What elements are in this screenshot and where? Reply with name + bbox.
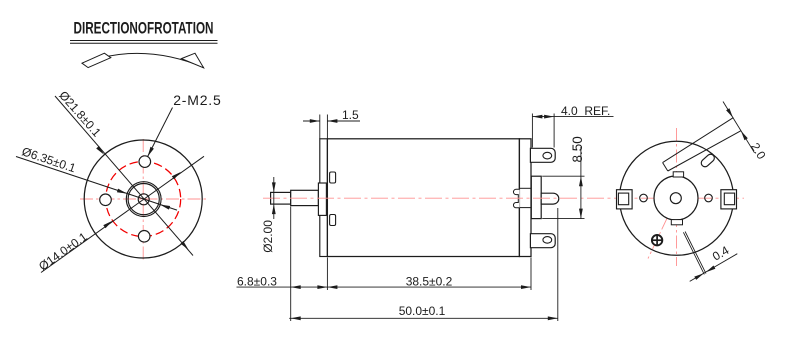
dim 1.5 extension lines <box>320 115 328 139</box>
boss outer circle <box>126 182 161 217</box>
bearing bottom tab <box>671 220 682 225</box>
svg-text:1.5: 1.5 <box>342 108 359 122</box>
brush hole left <box>640 194 648 202</box>
svg-text:50.0±0.1: 50.0±0.1 <box>399 304 446 318</box>
mounting hole top M2.5 <box>139 156 151 168</box>
title double underline <box>70 41 218 44</box>
vent hole <box>652 235 662 245</box>
rotation arrow arc <box>82 53 204 67</box>
arrow D21.8 lower <box>181 241 189 250</box>
brush hole right <box>705 194 713 202</box>
terminal clip right outer <box>721 190 737 209</box>
main centerline (red) <box>263 197 744 199</box>
svg-text:DIRECTIONOFROTATION: DIRECTIONOFROTATION <box>74 20 214 38</box>
centerline vertical (red) <box>142 139 144 261</box>
arrow D6.35 right <box>160 205 170 210</box>
front end plate <box>320 139 328 257</box>
terminal bar (2.0 wide) <box>663 118 741 171</box>
motor body outer circle D21.8 <box>84 140 202 258</box>
motor body can <box>327 139 519 257</box>
dim 38.5 arrows <box>327 285 531 289</box>
arrow D21.8 upper <box>96 146 104 155</box>
gap feature (0.4) <box>683 232 706 275</box>
dim 8.50 line <box>580 147 582 219</box>
end cap <box>519 139 531 257</box>
svg-text:2-M2.5: 2-M2.5 <box>173 92 221 108</box>
rotation arrow right open head <box>181 53 203 68</box>
terminal hole upper <box>543 152 552 159</box>
arrow D14 upper-right <box>172 172 181 179</box>
svg-text:Ø2.00: Ø2.00 <box>261 220 275 253</box>
can crimp tab lower <box>330 215 336 226</box>
terminal tab upper <box>530 148 555 162</box>
bearing retainer block lines <box>519 188 531 207</box>
terminal clip left outer <box>617 190 633 209</box>
dim 4.0 line <box>532 116 613 118</box>
terminal clip left inner <box>618 193 628 205</box>
bearing retainer clip prongs <box>513 189 519 208</box>
rotation arrow left open head <box>82 53 111 67</box>
dim D2.00 arrows <box>272 182 276 214</box>
mounting hole bottom M2.5 <box>138 231 150 243</box>
dim 8.50 arrows <box>579 176 583 218</box>
dim 4.0 REF extension lines <box>532 114 554 148</box>
front hub <box>318 183 326 215</box>
dim line D14 <box>41 156 204 272</box>
extension line boss face left <box>290 207 292 322</box>
arrow 2-M2.5 <box>148 147 154 157</box>
dim line D6.35 <box>16 157 177 211</box>
arrow D14 lower-left <box>103 221 112 228</box>
dim 1.5 arrows <box>310 119 338 123</box>
dim 2.0 arrows <box>726 108 748 140</box>
centerline horizontal (red) <box>80 198 209 200</box>
slot oval <box>700 153 716 169</box>
vent hole cross <box>652 235 662 245</box>
rear shaft stub <box>541 193 559 204</box>
extension line plate face <box>326 258 328 291</box>
front bushing boss <box>291 190 319 205</box>
dim 0.4 line <box>690 254 738 282</box>
arrow D6.35 left <box>117 189 127 194</box>
hole left <box>100 194 112 206</box>
dim 0.4 arrows <box>694 266 715 280</box>
rear bushing <box>531 176 541 218</box>
dim 1.5 line <box>303 120 360 122</box>
dim 2.0 line <box>723 102 755 153</box>
terminal hole lower <box>543 237 552 244</box>
title DIRECTION OF ROTATION <box>74 20 214 38</box>
dim 6.8 and 38.5 line <box>237 286 532 288</box>
extension line terminal end <box>557 208 559 321</box>
svg-text:8.50: 8.50 <box>570 136 585 162</box>
dim 4.0 arrows <box>532 115 554 119</box>
shaft <box>271 192 291 204</box>
dim 8.50 extension lines <box>542 176 584 218</box>
terminal tab lower <box>530 234 555 248</box>
centerline vertical right (red) <box>676 128 678 266</box>
dim 50.0 arrows <box>291 316 558 320</box>
bolt circle D14 (red dashed) <box>106 162 181 237</box>
centerline diagonal vent (red) <box>648 198 677 258</box>
bearing top tab <box>673 172 683 177</box>
rear bearing circle <box>654 176 698 220</box>
rear shaft hole <box>670 193 681 204</box>
can crimp tab upper <box>330 172 336 183</box>
rear outer circle <box>620 141 734 255</box>
dim line D21.8 <box>55 96 193 256</box>
boss inner circle <box>128 184 159 215</box>
terminal clip right inner <box>724 193 734 205</box>
dim 50.0 line <box>289 317 558 319</box>
dim D2.00 line <box>273 177 275 219</box>
svg-text:6.8±0.3: 6.8±0.3 <box>237 274 277 288</box>
svg-text:38.5±0.2: 38.5±0.2 <box>406 274 453 288</box>
leader 2-M2.5 <box>148 108 173 157</box>
shaft circle <box>138 194 149 205</box>
svg-text:4.0 REF.: 4.0 REF. <box>561 104 610 118</box>
extension line cap right <box>530 258 532 291</box>
dim 6.8 arrows <box>291 285 328 289</box>
